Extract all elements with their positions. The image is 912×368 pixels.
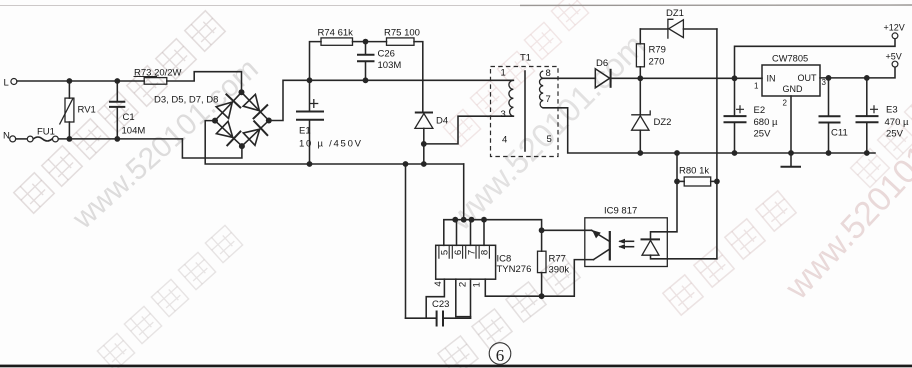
wire CW7805 OUT to +5V xyxy=(820,67,895,78)
wire R80 left riser xyxy=(651,153,678,239)
svg-text:TYN276: TYN276 xyxy=(497,264,532,275)
transformer T1 xyxy=(491,53,559,157)
node L-C1 xyxy=(114,78,120,84)
svg-text:R80 1k: R80 1k xyxy=(679,166,709,177)
figure number 6 xyxy=(489,343,511,365)
node bridge top xyxy=(239,89,245,95)
terminal L xyxy=(4,78,17,89)
wire D6 to CW7805 IN rail xyxy=(611,77,762,79)
node bus pin6 xyxy=(452,217,458,223)
node C11 bottom xyxy=(826,150,832,156)
wire C23 branch riser xyxy=(405,164,407,318)
wire T1 pin7 to ground rail xyxy=(543,108,875,153)
svg-text:10 µ /450V: 10 µ /450V xyxy=(299,139,362,150)
node N-RV1 xyxy=(67,136,73,142)
wire C23 to IC8 pin1 xyxy=(470,279,472,318)
node R77 bottom xyxy=(539,293,545,299)
svg-text:1: 1 xyxy=(754,82,759,91)
svg-text:R74 61k: R74 61k xyxy=(318,28,354,39)
diode bottom-right of bridge xyxy=(242,121,268,147)
svg-text:C26: C26 xyxy=(378,49,395,60)
node E2 plus xyxy=(732,75,738,81)
node bridge right xyxy=(266,118,272,124)
svg-text:2: 2 xyxy=(783,99,788,108)
svg-text:8: 8 xyxy=(546,68,551,79)
bridge rectifier D3,D5,D7,D8 xyxy=(154,89,272,149)
wire IC8 pin4 to C23 xyxy=(426,279,444,318)
svg-text:4: 4 xyxy=(433,281,444,287)
wire bridge right to +rail xyxy=(269,80,514,120)
regulator U CW7805 xyxy=(754,54,827,108)
svg-text:D6: D6 xyxy=(596,58,608,69)
node R74-R75-C26 xyxy=(363,39,369,45)
capacitor C23 xyxy=(406,299,471,327)
node bridge left xyxy=(212,118,218,124)
resistor R74 xyxy=(310,28,366,81)
node N-C1 xyxy=(114,136,120,142)
diode D4 xyxy=(415,113,448,165)
resistor R80 xyxy=(677,166,717,187)
svg-text:OUT: OUT xyxy=(798,73,818,83)
svg-text:RV1: RV1 xyxy=(78,105,96,116)
node DZ2 ground xyxy=(637,150,643,156)
T1 primary winding pins 1-3 xyxy=(509,80,514,116)
node E3 minus xyxy=(864,150,870,156)
svg-text:T1: T1 xyxy=(520,53,531,64)
node R80 left rail xyxy=(674,150,680,156)
svg-text:FU1: FU1 xyxy=(37,127,55,138)
diode D6 xyxy=(595,58,610,88)
zener DZ2 xyxy=(631,78,671,153)
svg-text:GND: GND xyxy=(783,84,804,94)
opto light arrows xyxy=(618,239,633,250)
svg-text:L: L xyxy=(4,78,9,89)
wire bridge left to -rail xyxy=(205,121,464,164)
wire T1 pin8 to D6 xyxy=(543,77,595,79)
node R80 left xyxy=(674,179,680,185)
svg-text:25V: 25V xyxy=(754,129,772,140)
svg-text:6: 6 xyxy=(453,250,464,255)
svg-text:+5V: +5V xyxy=(886,52,902,62)
wire IC8 gate bus xyxy=(444,220,592,246)
svg-text:104M: 104M xyxy=(122,126,146,137)
capacitor C11 xyxy=(819,78,848,153)
svg-text:470 µ: 470 µ xyxy=(885,117,909,128)
capacitor E2 xyxy=(724,78,778,153)
svg-text:D4: D4 xyxy=(436,116,448,127)
node E1 minus xyxy=(307,161,313,167)
terminal N xyxy=(3,131,16,142)
wire L line xyxy=(17,80,144,82)
node D6-R79-DZ2 xyxy=(637,75,643,81)
svg-text:R79: R79 xyxy=(649,45,666,56)
svg-text:1: 1 xyxy=(501,68,506,79)
wire N line xyxy=(58,138,182,140)
node GND rail xyxy=(788,150,794,156)
svg-text:IC8: IC8 xyxy=(497,254,512,265)
svg-text:25V: 25V xyxy=(886,129,904,140)
node R77 top xyxy=(539,227,545,233)
wire IC8 pin6 lead xyxy=(456,220,458,246)
opto LED xyxy=(641,238,661,240)
node D4 anode / pin3 branch xyxy=(421,141,427,147)
capacitor E1 xyxy=(296,80,362,164)
svg-text:7: 7 xyxy=(546,94,551,105)
svg-text:D3, D5, D7, D8: D3, D5, D7, D8 xyxy=(154,95,218,106)
svg-text:390k: 390k xyxy=(549,265,570,276)
capacitor C1 xyxy=(109,81,145,139)
wire IC8 pin2 stub xyxy=(456,279,471,316)
node bridge bottom xyxy=(239,143,245,149)
svg-text:DZ2: DZ2 xyxy=(654,117,672,128)
wire rail to IC8 bus riser xyxy=(463,164,465,220)
node R80 right xyxy=(714,179,720,185)
wire R73 to bridge xyxy=(167,72,242,90)
svg-text:2: 2 xyxy=(458,282,469,287)
capacitor E3 xyxy=(856,78,909,153)
svg-text:3: 3 xyxy=(822,78,827,87)
wire D4 to T1 pin3 xyxy=(424,116,514,144)
wire DZ1 to R80 right xyxy=(716,29,718,181)
svg-text:1: 1 xyxy=(471,282,482,287)
diode top-right of bridge xyxy=(242,93,268,119)
node C11 top xyxy=(826,75,832,81)
wire IC8 pin7 lead xyxy=(470,220,472,246)
svg-text:103M: 103M xyxy=(378,60,402,71)
node bus pin7 xyxy=(469,217,475,223)
wire +12V tap xyxy=(735,39,896,79)
resistor R79 xyxy=(636,29,666,78)
node bus riser xyxy=(461,217,467,223)
svg-text:N: N xyxy=(3,131,10,142)
zener DZ1 xyxy=(640,8,717,39)
terminal +5V xyxy=(886,52,902,68)
wire R80 right to opto LED cathode xyxy=(651,181,717,258)
wire IC8 pin1 to R77 bottom xyxy=(485,260,593,297)
svg-text:5: 5 xyxy=(440,250,451,255)
node C26 bottom xyxy=(363,77,369,83)
resistor R75 xyxy=(366,28,423,112)
svg-text:3: 3 xyxy=(501,109,506,120)
svg-text:E2: E2 xyxy=(754,105,766,116)
svg-text:270: 270 xyxy=(649,57,665,68)
wire IC8 pin8 lead xyxy=(483,220,485,246)
node E2 minus xyxy=(732,150,738,156)
fuse FU1 xyxy=(16,127,59,142)
node E1 plus xyxy=(307,77,313,83)
svg-text:680 µ: 680 µ xyxy=(754,117,778,128)
ground xyxy=(781,153,802,167)
svg-text:6: 6 xyxy=(496,346,505,365)
svg-text:8: 8 xyxy=(480,250,491,255)
terminal +12V xyxy=(884,23,905,39)
opto phototransistor xyxy=(609,231,611,261)
resistor R73 xyxy=(134,68,182,85)
svg-text:4: 4 xyxy=(502,135,507,146)
node D4 anode rail xyxy=(421,161,427,167)
svg-text:IN: IN xyxy=(767,74,776,84)
diode bottom-left of bridge xyxy=(215,120,241,146)
svg-text:C11: C11 xyxy=(831,128,848,139)
svg-text:CW7805: CW7805 xyxy=(772,54,808,64)
svg-text:C1: C1 xyxy=(123,112,135,123)
diode top-left of bridge xyxy=(215,94,241,120)
svg-text:E3: E3 xyxy=(886,105,898,116)
svg-text:R77: R77 xyxy=(549,254,566,265)
T1 secondary winding pins 8-7 xyxy=(540,71,544,108)
svg-text:7: 7 xyxy=(466,250,477,255)
node L-RV1 xyxy=(67,78,73,84)
svg-text:DZ1: DZ1 xyxy=(666,8,684,19)
node bus pin8 xyxy=(481,217,487,223)
wire N to bridge bottom xyxy=(182,139,242,158)
wire CW7805 GND pin xyxy=(790,96,792,153)
svg-text:R75 100: R75 100 xyxy=(384,28,420,39)
switching IC8 TYN276 xyxy=(433,245,531,287)
node C23 branch xyxy=(403,161,409,167)
node E3 plus xyxy=(864,75,870,81)
svg-text:C23: C23 xyxy=(432,299,449,310)
resistor R77 xyxy=(538,230,570,296)
varistor RV1 xyxy=(60,81,96,139)
svg-text:5: 5 xyxy=(547,134,552,145)
capacitor C26 xyxy=(357,42,401,81)
svg-text:E1: E1 xyxy=(299,126,311,137)
svg-text:+12V: +12V xyxy=(884,23,905,33)
svg-text:IC9 817: IC9 817 xyxy=(604,206,637,217)
optocoupler IC9 817 xyxy=(585,206,668,267)
